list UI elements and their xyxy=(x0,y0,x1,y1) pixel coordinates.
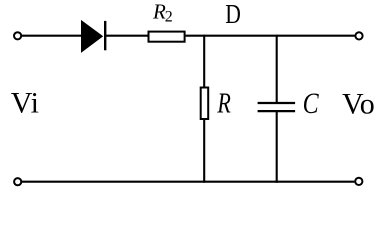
svg-text:D: D xyxy=(225,0,241,29)
wire R2 to output terminal xyxy=(186,35,355,37)
terminal input top xyxy=(14,32,21,39)
diode D triangle xyxy=(81,20,103,53)
wire top-left xyxy=(22,35,82,37)
diode D cathode bar xyxy=(104,21,106,50)
bottom rail wire xyxy=(22,181,354,183)
wire diode to R2 xyxy=(105,35,149,37)
capacitor C top plate xyxy=(258,102,296,104)
wire capacitor C to bottom rail xyxy=(276,111,278,183)
terminal output top xyxy=(355,32,362,39)
svg-text:Vi: Vi xyxy=(11,87,39,120)
wire node D down to resistor R xyxy=(203,35,205,88)
wire node D down to capacitor C xyxy=(276,35,278,103)
svg-text:C: C xyxy=(303,87,320,120)
svg-text:R: R xyxy=(217,89,231,120)
capacitor C bottom plate xyxy=(258,110,296,112)
terminal output bottom xyxy=(355,178,362,185)
wire resistor R to bottom rail xyxy=(203,119,205,183)
terminal input bottom xyxy=(14,178,21,185)
resistor R2 xyxy=(149,32,185,42)
svg-text:2: 2 xyxy=(165,9,173,26)
svg-text:Vo: Vo xyxy=(342,88,375,121)
resistor R xyxy=(201,88,209,120)
